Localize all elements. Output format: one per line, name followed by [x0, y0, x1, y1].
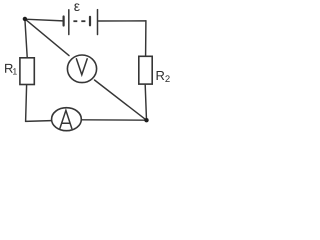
- wire top-left segment (node to battery): [25, 19, 63, 21]
- wire top-right segment (battery to top-right corner): [98, 20, 146, 22]
- wire bottom-right segment (node to ammeter): [82, 119, 146, 121]
- node junction top-left: [23, 17, 27, 21]
- wire right lower segment (R2 to bottom-right node): [145, 85, 146, 120]
- wire left lower segment (corner up to R1): [26, 85, 27, 121]
- wire left upper segment (R1 up to top-left node): [25, 19, 27, 57]
- voltmeter V body: [67, 55, 96, 83]
- ammeter letter A: [60, 110, 72, 128]
- label R1: [5, 64, 13, 73]
- wire diagonal (top-left node to voltmeter): [25, 19, 69, 56]
- wire bottom-left segment (ammeter to bottom-left corner): [26, 120, 51, 123]
- battery cell 2 long plate: [97, 10, 99, 35]
- resistor R1 body: [20, 58, 34, 85]
- node junction bottom-right: [144, 118, 148, 122]
- wire diagonal (voltmeter to bottom-right node): [95, 80, 147, 120]
- label ε (emf value): [74, 3, 79, 11]
- label R2: [157, 71, 165, 80]
- wire right upper segment (corner down to R2): [145, 21, 147, 56]
- battery cell 1 long plate: [68, 10, 70, 35]
- battery cell 2 short plate: [89, 17, 91, 26]
- battery dashed continuation dash 1: [73, 20, 77, 22]
- resistor R2 body: [139, 56, 152, 84]
- battery dashed continuation dash 2: [81, 20, 85, 22]
- ammeter A body: [52, 108, 82, 131]
- battery cell 1 short plate: [62, 17, 64, 26]
- voltmeter letter V: [76, 59, 87, 75]
